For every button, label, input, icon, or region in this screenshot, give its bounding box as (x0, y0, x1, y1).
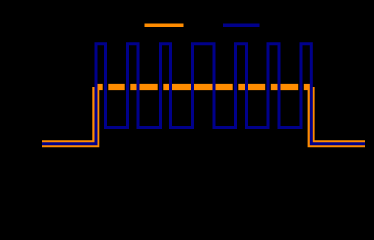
smoothed output trace, falling edge and right baseline (orange solid) (311, 87, 365, 144)
PWM square-wave trace (navy) (42, 44, 365, 144)
smoothed output trace, mid-level dashed segments (orange) (96, 84, 311, 90)
legend: PWM signal sample line (navy) (223, 24, 260, 28)
legend: smoothed output sample line (orange) (145, 24, 184, 28)
smoothed output trace, left baseline and rising edge (orange solid) (42, 87, 96, 144)
